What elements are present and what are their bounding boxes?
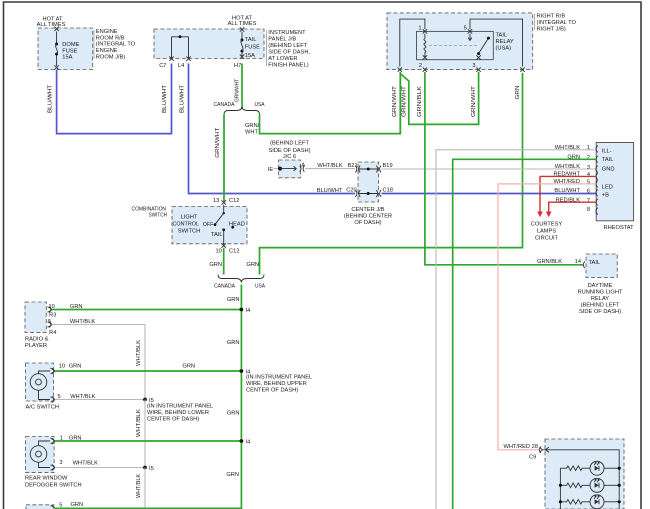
label COMBINATION SWITCH <box>132 206 168 218</box>
svg-text:SIDE OF DASH,: SIDE OF DASH, <box>268 50 310 56</box>
A/C illumination bulb <box>30 371 50 400</box>
svg-text:GRN: GRN <box>226 472 239 478</box>
wire BLU/WHT L4 to C20 <box>189 64 356 194</box>
svg-text:WHT/BLK: WHT/BLK <box>555 164 580 170</box>
wire GRN bottom switch to trunk <box>55 507 242 509</box>
svg-text:R4: R4 <box>49 330 56 336</box>
svg-text:BLU/WHT: BLU/WHT <box>554 188 580 194</box>
svg-text:GRN/WHT: GRN/WHT <box>392 85 398 117</box>
label LIGHT CONTROL SWITCH <box>173 214 201 234</box>
svg-text:14: 14 <box>575 259 581 265</box>
wire BLU/WHT dome fuse to C7 <box>57 64 172 134</box>
center J/B box <box>358 162 379 202</box>
svg-text:RELAY: RELAY <box>496 39 514 45</box>
relay U1 inner box <box>417 31 494 59</box>
A/C pin 5 <box>51 394 61 402</box>
wire RED/WHT rheostat pin 4 to courtesy <box>540 176 596 211</box>
wire GRN/WHT brace to combination switch pin 13 <box>223 115 225 203</box>
svg-text:RHEOSTAT: RHEOSTAT <box>604 225 635 231</box>
wire GRN relay output to USA branch <box>260 73 523 275</box>
center J/B label <box>344 207 392 226</box>
junction connector J/C 6 <box>268 160 306 178</box>
svg-text:FUSE: FUSE <box>245 44 260 50</box>
A/C switch box <box>26 363 54 401</box>
radio & player label <box>25 337 49 349</box>
wire WHT/BLK defogger pin3 to ladder <box>55 467 145 469</box>
svg-text:GRN: GRN <box>227 340 240 346</box>
bottom partial switch box <box>26 505 54 509</box>
svg-text:HEAD: HEAD <box>229 221 245 227</box>
svg-text:ILL-: ILL- <box>602 148 612 154</box>
arrow courtesy (pin 7) <box>546 212 552 218</box>
radio pin 10 <box>48 304 57 319</box>
svg-text:CONTROL: CONTROL <box>173 222 200 228</box>
svg-text:GRN/BLK: GRN/BLK <box>537 259 562 265</box>
LED panel connector pin 28 C9 <box>503 444 542 461</box>
svg-text:(IN INSTRUMENT PANEL: (IN INSTRUMENT PANEL <box>147 403 213 409</box>
wire GRN A/C pin10 to trunk <box>55 370 242 372</box>
pin labels C7 L4 H7 <box>159 63 241 69</box>
svg-text:BLU/WHT: BLU/WHT <box>317 188 343 194</box>
defogger pin 3 <box>51 460 63 470</box>
relay dashed link <box>429 44 477 46</box>
label HOT AT ALL TIMES (middle) <box>228 15 257 27</box>
svg-text:GRN/WHT: GRN/WHT <box>471 85 477 117</box>
wire GRN/WHT H7 down to brace <box>241 64 243 109</box>
svg-text:GND: GND <box>602 167 615 173</box>
svg-text:ALL TIMES: ALL TIMES <box>37 22 66 28</box>
LED row 2 (resistor + LED D2) <box>559 478 621 492</box>
svg-text:3: 3 <box>472 63 475 69</box>
svg-text:GRN: GRN <box>209 262 222 268</box>
svg-text:RADIO &: RADIO & <box>25 337 49 343</box>
center J/B B21-B19 feedthrough <box>348 163 393 173</box>
svg-text:WIRE, BEHIND UPPER: WIRE, BEHIND UPPER <box>246 381 307 387</box>
junction I4 (defogger) <box>240 439 251 445</box>
svg-text:ENGINE: ENGINE <box>96 48 118 54</box>
svg-text:GRN: GRN <box>246 262 259 268</box>
combination switch pin 13 <box>213 198 239 205</box>
svg-text:GRN/: GRN/ <box>245 123 260 129</box>
svg-text:WHT/BLK: WHT/BLK <box>70 394 95 400</box>
svg-text:WHT/BLK: WHT/BLK <box>73 461 98 467</box>
svg-text:WHT: WHT <box>245 129 258 135</box>
svg-text:WIRE, BEHIND LOWER: WIRE, BEHIND LOWER <box>147 410 209 416</box>
svg-text:GRN: GRN <box>70 304 83 310</box>
svg-text:DAYTIME: DAYTIME <box>588 283 613 289</box>
arrow courtesy (pin 4) <box>537 212 543 218</box>
wire WHT/BLK off-page to rheostat pin 1 <box>436 150 596 509</box>
instrument panel J/B internal jumper C7-L4 <box>169 35 190 61</box>
svg-text:B19: B19 <box>383 163 393 169</box>
svg-text:10: 10 <box>216 248 222 254</box>
svg-text:(INTEGRAL TO: (INTEGRAL TO <box>537 20 577 26</box>
radio pin 5 <box>48 319 57 336</box>
junction I4 (A/C) <box>240 369 251 375</box>
svg-text:LED: LED <box>602 184 613 190</box>
svg-text:RUNNING LIGHT: RUNNING LIGHT <box>578 290 623 296</box>
svg-text:(BEHIND LEFT: (BEHIND LEFT <box>581 303 620 309</box>
svg-text:A/C SWITCH: A/C SWITCH <box>26 405 60 411</box>
svg-text:I4: I4 <box>246 308 251 314</box>
rheostat wire name labels <box>553 145 580 203</box>
brace merge CANADA/USA (lower) <box>218 275 264 283</box>
svg-text:+B: +B <box>602 192 609 198</box>
svg-text:RIGHT J/B): RIGHT J/B) <box>537 27 566 33</box>
svg-text:OFF: OFF <box>203 222 214 228</box>
svg-text:COMBINATION: COMBINATION <box>132 206 167 212</box>
junction I5 (defogger) <box>143 466 154 472</box>
relay label TAIL RELAY (USA) <box>496 33 514 52</box>
svg-text:INSTRUMENT: INSTRUMENT <box>268 30 306 36</box>
svg-text:GRN: GRN <box>227 411 240 417</box>
wire WHT/BLK ladder A/C to defogger <box>144 400 146 468</box>
svg-text:15A: 15A <box>245 53 255 59</box>
svg-text:WHT/RED: WHT/RED <box>503 444 530 450</box>
svg-text:GRN: GRN <box>227 297 240 303</box>
svg-text:(IN INSTRUMENT PANEL: (IN INSTRUMENT PANEL <box>246 374 312 380</box>
svg-text:CANADA: CANADA <box>214 284 235 290</box>
relay switch contact <box>464 26 490 69</box>
svg-text:SIDE OF DASH): SIDE OF DASH) <box>579 309 621 315</box>
svg-text:C12: C12 <box>229 248 239 254</box>
svg-text:CENTER OF DASH): CENTER OF DASH) <box>147 416 199 422</box>
svg-text:USA: USA <box>255 284 265 290</box>
junction I4 (radio) <box>240 308 251 314</box>
svg-text:GRN: GRN <box>515 86 521 100</box>
fuse DOME FUSE 15A <box>54 27 79 70</box>
svg-text:C20: C20 <box>346 188 356 194</box>
svg-text:5: 5 <box>464 26 467 32</box>
LED panel box <box>545 439 624 509</box>
wire GRN defogger pin1 to trunk <box>55 440 242 442</box>
svg-text:COURTESY: COURTESY <box>531 222 563 228</box>
wire WHT/BLK B19 to rheostat pin 3 <box>382 168 597 170</box>
label COURTESY LAMPS CIRCUIT <box>531 222 563 242</box>
svg-text:TAIL: TAIL <box>211 232 223 238</box>
svg-text:(BEHIND CENTER: (BEHIND CENTER <box>344 214 392 220</box>
bottom switch pin 5 <box>51 502 63 508</box>
svg-text:ROOM R/B: ROOM R/B <box>96 35 125 41</box>
splice note upper <box>246 374 312 393</box>
svg-text:R3: R3 <box>49 313 56 319</box>
svg-text:PLAYER: PLAYER <box>25 343 47 349</box>
wire RED/BLK rheostat pin 7 to courtesy <box>549 202 596 211</box>
svg-text:C18: C18 <box>383 188 393 194</box>
wire WHT/BLK radio pin5 to ladder <box>52 325 145 400</box>
svg-text:ROOM J/B): ROOM J/B) <box>96 54 125 60</box>
svg-text:2: 2 <box>587 155 590 161</box>
daytime running light relay box <box>586 254 617 277</box>
wire WHT/BLK A/C pin5 to ladder <box>55 399 145 401</box>
instrument panel J/B label <box>267 30 311 69</box>
svg-text:(INTEGRAL TO: (INTEGRAL TO <box>96 42 136 48</box>
svg-text:10: 10 <box>59 363 65 369</box>
wire GRN pin10 down to lower brace <box>223 248 225 275</box>
svg-text:ENGINE: ENGINE <box>96 29 118 35</box>
svg-text:LIGHT: LIGHT <box>181 214 198 220</box>
rear window defogger switch box <box>26 437 55 473</box>
rheostat internal labels <box>602 148 615 198</box>
brace split CANADA/USA (top) <box>224 107 260 115</box>
relay coil <box>418 26 427 69</box>
engine room R/B label <box>94 29 136 60</box>
svg-text:(USA): (USA) <box>496 46 512 52</box>
svg-text:GRN: GRN <box>69 363 82 369</box>
svg-text:FUSE: FUSE <box>62 48 77 54</box>
svg-text:B21: B21 <box>348 163 358 169</box>
DRL relay label <box>578 283 623 315</box>
svg-text:GRN: GRN <box>71 502 84 508</box>
svg-text:GRN/WHT: GRN/WHT <box>401 85 407 117</box>
label GRN/WHT (USA branch) <box>245 123 260 135</box>
svg-text:4: 4 <box>587 172 590 178</box>
defogger switch label <box>25 475 82 488</box>
right R/B box <box>387 13 533 70</box>
svg-text:RIGHT R/B: RIGHT R/B <box>537 14 566 20</box>
svg-text:3: 3 <box>587 165 590 171</box>
wire GRN trunk down page <box>240 285 242 509</box>
wire GRN/WHT relay conn1 right prong to pin3 <box>400 72 478 125</box>
svg-text:TAIL: TAIL <box>245 37 257 43</box>
svg-text:RELAY: RELAY <box>591 296 609 302</box>
svg-text:CANADA: CANADA <box>214 102 235 108</box>
radio & player box <box>25 302 46 332</box>
svg-text:28: 28 <box>532 444 538 450</box>
svg-text:WHT/BLK: WHT/BLK <box>317 163 342 169</box>
svg-text:BLU/WHT: BLU/WHT <box>180 84 186 113</box>
svg-text:BLU/WHT: BLU/WHT <box>48 84 54 113</box>
center J/B C20-C18 feedthrough <box>346 188 393 197</box>
instrument panel J/B box <box>154 29 264 59</box>
svg-text:(BEHIND LEFT: (BEHIND LEFT <box>268 43 307 49</box>
defogger illumination bulb <box>30 441 50 468</box>
svg-text:WHT/BLK: WHT/BLK <box>136 340 142 366</box>
svg-text:AT LOWER: AT LOWER <box>268 56 297 62</box>
splice note lower <box>147 403 213 422</box>
svg-text:SWITCH: SWITCH <box>149 213 168 219</box>
J/C 6 location label <box>268 141 310 160</box>
LED row 3 (resistor + LED D3) <box>559 495 621 509</box>
svg-text:(BEHIND LEFT: (BEHIND LEFT <box>270 141 309 147</box>
junction I5 (A/C) <box>143 398 154 404</box>
svg-text:BLU/WHT: BLU/WHT <box>162 84 168 113</box>
svg-text:GRN/WHT: GRN/WHT <box>215 127 221 158</box>
defogger pin 1 <box>51 435 63 444</box>
svg-text:GRN/BLK: GRN/BLK <box>417 86 423 117</box>
svg-text:I4: I4 <box>246 440 251 446</box>
wire GRN radio pin10 to trunk <box>52 309 242 311</box>
A/C pin 10 <box>51 363 66 374</box>
wire WHT/BLK J/C6 to B21 <box>305 168 355 170</box>
svg-text:ALL TIMES: ALL TIMES <box>228 21 257 27</box>
svg-text:15A: 15A <box>62 55 72 61</box>
svg-text:3: 3 <box>59 460 62 466</box>
svg-text:I5: I5 <box>149 466 154 472</box>
LED rail left <box>559 468 561 509</box>
svg-text:CENTER OF DASH): CENTER OF DASH) <box>246 387 298 393</box>
combination switch box <box>172 207 247 244</box>
svg-text:7: 7 <box>587 198 590 204</box>
svg-text:5: 5 <box>587 180 590 186</box>
svg-text:2: 2 <box>419 63 422 69</box>
svg-text:8: 8 <box>587 207 590 213</box>
svg-text:FINISH PANEL): FINISH PANEL) <box>268 63 308 69</box>
svg-text:TAIL: TAIL <box>496 33 508 39</box>
svg-text:CIRCUIT: CIRCUIT <box>535 236 559 242</box>
svg-text:1: 1 <box>418 26 421 32</box>
fuse TAIL FUSE 15A <box>240 27 260 59</box>
svg-text:C7: C7 <box>159 63 166 69</box>
svg-text:H7: H7 <box>234 63 241 69</box>
svg-text:13: 13 <box>213 198 219 204</box>
svg-text:PANEL J/B: PANEL J/B <box>268 37 296 43</box>
svg-text:C12: C12 <box>229 198 239 204</box>
wire GRN/BLK relay pin2 to DRL relay pin 14 <box>425 72 584 265</box>
svg-text:J/C 6: J/C 6 <box>283 154 296 160</box>
svg-text:5: 5 <box>48 319 51 325</box>
LED panel feed wire <box>543 450 620 468</box>
svg-text:DEFOGGER SWITCH: DEFOGGER SWITCH <box>25 483 82 489</box>
svg-text:GRN: GRN <box>69 435 82 441</box>
LED rail right <box>618 468 620 509</box>
svg-text:CENTER J/B: CENTER J/B <box>351 207 384 213</box>
rheostat pin connectors 1-8 <box>596 146 598 215</box>
svg-text:TAIL: TAIL <box>589 260 601 266</box>
svg-text:USA: USA <box>255 102 265 108</box>
wire GRN off-page to rheostat pin 2 <box>453 159 596 509</box>
svg-text:TAIL: TAIL <box>602 157 614 163</box>
svg-text:GRN/WHT: GRN/WHT <box>235 79 241 102</box>
rheostat box <box>596 143 633 221</box>
wire GRN/WHT USA branch to relay <box>260 76 401 134</box>
DRL relay pin 14 <box>575 259 585 268</box>
right R/B label <box>535 14 577 33</box>
relay internal wiring pin1/pin5 routing <box>398 19 525 72</box>
svg-text:OF DASH): OF DASH) <box>354 220 381 226</box>
svg-text:L4: L4 <box>178 63 184 69</box>
wire BLU/WHT C18 to rheostat pin 6 <box>382 193 597 195</box>
svg-text:IE: IE <box>268 167 274 173</box>
engine room R/B box <box>38 28 93 70</box>
svg-text:WHT/BLK: WHT/BLK <box>136 474 142 498</box>
LED row 1 (resistor + LED D1) <box>560 461 620 475</box>
combination switch pin 10 <box>216 243 240 254</box>
wire WHT/RED rheostat pin 5 to LED panel <box>498 184 596 450</box>
svg-text:LAMPS: LAMPS <box>537 229 556 235</box>
svg-text:REAR WINDOW: REAR WINDOW <box>25 475 68 481</box>
svg-text:WHT/BLK: WHT/BLK <box>70 319 95 325</box>
svg-text:C9: C9 <box>529 455 536 461</box>
svg-text:GRN: GRN <box>182 363 195 369</box>
label HOT AT ALL TIMES (left) <box>37 16 66 28</box>
svg-text:WHT/BLK: WHT/BLK <box>136 409 142 437</box>
rheostat pin number labels <box>587 145 590 213</box>
svg-text:SWITCH: SWITCH <box>178 228 200 234</box>
svg-text:DOME: DOME <box>62 42 79 48</box>
svg-text:6: 6 <box>587 189 590 195</box>
wire GRN/WHT relay conn1 left prong to USA line <box>399 72 401 134</box>
wire WHT/BLK ladder off-page <box>144 468 146 509</box>
light control switch contacts OFF/TAIL/HEAD <box>203 205 245 246</box>
